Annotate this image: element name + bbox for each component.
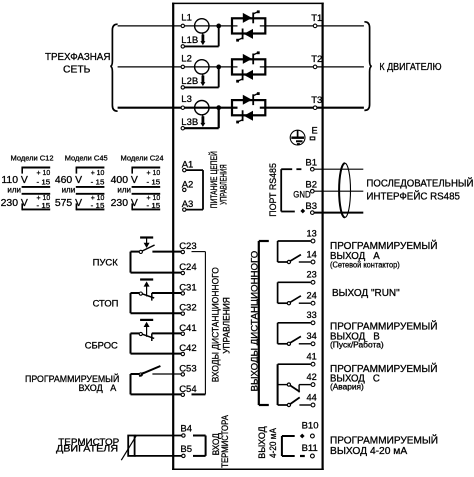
label output 4-20 mA (vertical) [257, 426, 278, 459]
svg-text:24: 24 [307, 291, 317, 301]
svg-text:230 V: 230 V [111, 198, 138, 209]
svg-text:400 V: 400 V [111, 175, 138, 186]
label motor thermistor [56, 436, 119, 454]
wire loop start button [152, 251, 184, 253]
svg-text:110 V: 110 V [1, 175, 27, 186]
wire T3 to motor [317, 107, 364, 109]
svg-text:T3: T3 [311, 95, 322, 106]
svg-text:T1: T1 [311, 13, 322, 24]
wire T2 to motor [317, 66, 364, 68]
svg-text:L2: L2 [181, 53, 192, 64]
svg-text:L3: L3 [181, 94, 192, 105]
svg-text:L1: L1 [181, 12, 192, 23]
brace supply side [110, 24, 117, 111]
svg-text:GND: GND [293, 189, 310, 200]
svg-text:23: 23 [307, 270, 317, 280]
terminal 23 [307, 270, 317, 284]
svg-text:T2: T2 [311, 54, 322, 65]
terminal B11 [302, 443, 318, 458]
wire L3B bypass loop [185, 108, 219, 129]
wire phase L1 input [118, 25, 232, 27]
relay contact K3 (33-34) [278, 323, 311, 346]
terminal A3 [182, 199, 194, 211]
svg-text:+ 10: + 10 [37, 168, 51, 177]
terminal C42 [179, 343, 196, 356]
terminal T2 [311, 54, 322, 69]
terminal 34 [307, 331, 317, 345]
wire phase L2 input [118, 66, 232, 68]
svg-text:(Пуск/Работа): (Пуск/Работа) [330, 341, 384, 350]
terminal B3 [305, 201, 317, 214]
terminal C24 [179, 262, 196, 275]
port RS485 bracket [281, 169, 301, 211]
svg-text:ВХОД А: ВХОД А [79, 382, 117, 393]
wire loop stop button [152, 292, 185, 294]
svg-text:33: 33 [307, 310, 317, 320]
relay changeover contact K4 (41-42-44) [278, 364, 311, 406]
svg-text:- 15: - 15 [91, 178, 105, 187]
terminal C53 [179, 363, 196, 376]
wire T3 output [260, 107, 315, 109]
terminal L3B [181, 117, 198, 130]
svg-text:Модели C24: Модели C24 [121, 153, 164, 162]
terminal C23 [179, 241, 196, 254]
junction L3/L3B [216, 105, 221, 110]
wire T1 to motor [317, 25, 364, 27]
terminal B5 [180, 444, 192, 458]
terminal B4 [180, 424, 192, 438]
svg-text:ПОРТ RS485: ПОРТ RS485 [268, 163, 279, 217]
label programmable output A [330, 239, 438, 269]
terminal 13 [307, 228, 317, 243]
svg-text:или: или [117, 185, 131, 194]
terminal B10 [302, 421, 319, 438]
svg-text:ВЫХОД "RUN": ВЫХОД "RUN" [332, 288, 400, 299]
bypass contactor symbol (L1) [195, 19, 209, 45]
svg-text:ТЕРМИСТОРА: ТЕРМИСТОРА [220, 415, 230, 468]
svg-text:УПРАВЛЕНИЯ: УПРАВЛЕНИЯ [219, 164, 229, 204]
svg-text:44: 44 [307, 392, 317, 402]
terminal B2 [305, 180, 317, 193]
wire loop programmable input A [152, 373, 184, 375]
svg-text:14: 14 [307, 249, 317, 259]
label remote control inputs [211, 267, 232, 382]
svg-text:34: 34 [307, 331, 317, 341]
svg-text:СБРОС: СБРОС [85, 340, 118, 351]
push button STOP (СТОП) [139, 280, 154, 301]
svg-text:460 V: 460 V [55, 175, 82, 186]
wire T2 output [260, 66, 315, 68]
junction L2/L2B [216, 65, 221, 70]
terminal 42 [307, 372, 317, 387]
svg-text:ПРОГРАММИРУЕМЫЙ: ПРОГРАММИРУЕМЫЙ [330, 434, 438, 447]
svg-text:230 V: 230 V [1, 198, 28, 209]
polarity diamond B10 [300, 434, 305, 439]
thermistor RT motor [121, 436, 136, 461]
label programmable output B [330, 320, 438, 350]
terminal T3 [311, 95, 322, 110]
value label model table Модели C45 [55, 153, 108, 210]
svg-text:или: или [7, 185, 21, 194]
svg-text:К ДВИГАТЕЛЮ: К ДВИГАТЕЛЮ [379, 62, 441, 73]
junction L1/L1B [216, 24, 221, 29]
svg-text:ВЫХОД: ВЫХОД [257, 426, 267, 459]
terminal L3 [181, 94, 192, 109]
bracket remote control outputs [259, 241, 269, 405]
label thermistor input [211, 415, 230, 468]
terminal L1B [181, 35, 198, 48]
wire B3 serial line [314, 212, 363, 214]
svg-text:B4: B4 [180, 424, 192, 435]
label control circuit supply [208, 151, 229, 208]
svg-text:B10: B10 [302, 421, 319, 432]
svg-text:ПИТАНИЕ ЦЕПЕЙ: ПИТАНИЕ ЦЕПЕЙ [208, 151, 219, 208]
wire T1 output [260, 25, 315, 27]
terminal C31 [179, 282, 196, 295]
push button START (ПУСК) [139, 238, 154, 254]
svg-text:42: 42 [307, 372, 317, 382]
svg-text:УПРАВЛЕНИЯ: УПРАВЛЕНИЯ [221, 297, 231, 354]
svg-text:+ 10: + 10 [147, 168, 161, 177]
svg-text:ПОСЛЕДОВАТЕЛЬНЫЙ: ПОСЛЕДОВАТЕЛЬНЫЙ [366, 177, 473, 190]
wire B5 thermistor [135, 455, 185, 457]
terminal A2 [182, 179, 194, 191]
svg-text:4-20 мА: 4-20 мА [268, 428, 278, 458]
svg-text:B5: B5 [180, 444, 192, 455]
svg-text:СЕТЬ: СЕТЬ [63, 64, 91, 75]
relay contact K1 (13-14) [278, 241, 311, 264]
value label model table Модели C12 [1, 153, 54, 210]
wire L1B bypass loop [185, 26, 219, 47]
terminal T1 [311, 13, 322, 28]
wire B1 serial line [314, 168, 363, 170]
bypass contactor symbol (L2) [195, 60, 209, 86]
svg-text:ДВИГАТЕЛЯ: ДВИГАТЕЛЯ [56, 443, 118, 454]
svg-text:B1: B1 [305, 158, 317, 169]
terminal L2B [181, 76, 198, 89]
thyristor pair SCR1 (L1-T1) [232, 10, 265, 41]
wire L2B bypass loop [185, 67, 219, 88]
bracket 4-20 mA output [282, 436, 295, 456]
svg-text:(Сетевой контактор): (Сетевой контактор) [330, 261, 400, 270]
terminal C32 [179, 303, 196, 316]
svg-text:ВХОДЫ ДИСТАНЦИОННОГО: ВХОДЫ ДИСТАНЦИОННОГО [211, 267, 221, 382]
bypass contactor symbol (L3) [195, 101, 209, 127]
terminal 44 [307, 392, 317, 407]
label programmable output 4-20 mA [330, 434, 438, 458]
wire phase L3 input [118, 107, 232, 109]
push button RESET (СБРОС) [139, 320, 154, 341]
label programmable input A [25, 373, 119, 393]
terminal C41 [179, 323, 196, 336]
svg-text:41: 41 [307, 352, 317, 362]
value label model table Модели C24 [111, 153, 164, 210]
wire B2 serial line [314, 190, 363, 192]
bracket thermistor input [193, 436, 206, 456]
svg-text:(Авария): (Авария) [330, 382, 364, 391]
svg-text:- 15: - 15 [147, 178, 161, 187]
relay contact K2 (23-24) [278, 282, 311, 305]
label three-phase supply [45, 52, 110, 76]
svg-text:Модели C12: Модели C12 [11, 153, 54, 162]
terminal L1 [181, 12, 192, 27]
terminal 41 [307, 352, 317, 367]
terminal B1 [305, 158, 317, 171]
polarity diamond B3 [300, 209, 305, 214]
svg-text:B11: B11 [302, 443, 318, 454]
bracket remote control inputs [192, 252, 206, 395]
svg-text:+ 10: + 10 [91, 168, 105, 177]
svg-text:E: E [312, 126, 318, 136]
brace motor side [364, 22, 371, 111]
svg-text:ИНТЕРФЕЙС RS485: ИНТЕРФЕЙС RS485 [366, 190, 460, 203]
soft starter enclosure outline [172, 3, 324, 470]
label serial interface RS485 [366, 177, 473, 203]
terminal E [310, 126, 317, 140]
wire loop reset button [152, 332, 185, 334]
switch programmable input A [139, 366, 160, 377]
terminal L2 [181, 53, 192, 68]
thyristor pair SCR2 (L2-T2) [232, 51, 265, 82]
shielded cable loop [339, 163, 350, 217]
svg-text:или: или [62, 185, 76, 194]
svg-text:СТОП: СТОП [93, 299, 119, 310]
wire bracket A1-A3 [186, 170, 203, 210]
wire B4 thermistor [135, 435, 185, 437]
svg-text:- 15: - 15 [37, 178, 51, 187]
polarity minus B11 [300, 455, 305, 457]
svg-text:13: 13 [307, 228, 317, 238]
svg-text:ПУСК: ПУСК [93, 258, 119, 269]
svg-text:Модели C45: Модели C45 [65, 153, 108, 162]
svg-text:ТРЕХФАЗНАЯ: ТРЕХФАЗНАЯ [45, 52, 110, 63]
terminal C54 [179, 384, 196, 397]
terminal 24 [307, 291, 317, 306]
thyristor pair SCR3 (L3-T3) [232, 92, 265, 123]
svg-text:ВЫХОД 4-20 мА: ВЫХОД 4-20 мА [330, 446, 408, 457]
terminal 33 [307, 310, 317, 324]
label programmable output C [330, 362, 438, 392]
svg-text:575 V: 575 V [55, 198, 82, 209]
svg-text:ВЫХОДЫ ДИСТАНЦИОННОГО: ВЫХОДЫ ДИСТАНЦИОННОГО [250, 251, 261, 392]
terminal 14 [307, 249, 317, 264]
protective earth symbol [290, 130, 305, 145]
svg-text:B3: B3 [305, 201, 317, 212]
terminal A1 [182, 160, 194, 172]
